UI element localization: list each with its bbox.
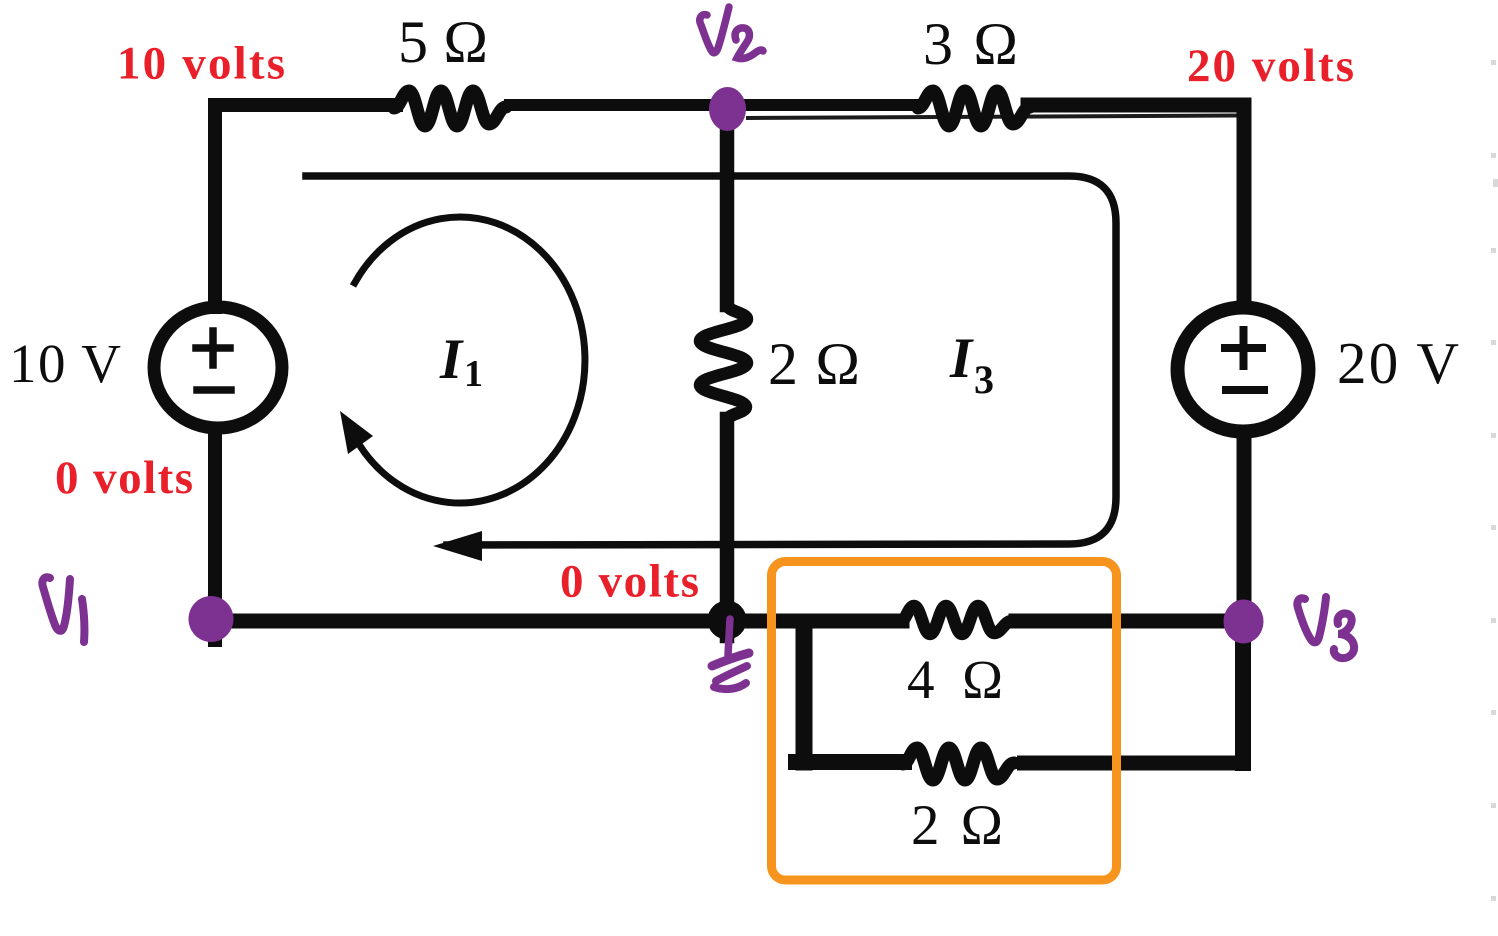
svg-text:3 Ω: 3 Ω xyxy=(923,11,1018,77)
wire left segment below 10V source to node V1 xyxy=(208,431,222,640)
svg-text:I: I xyxy=(439,328,464,391)
plus sign of 10V source xyxy=(196,331,230,365)
minus sign of 20V source xyxy=(1226,386,1264,394)
resistor R 5-ohm (top left) xyxy=(394,91,506,126)
wire top-left segment (10V source top to 5-ohm resistor) xyxy=(215,105,396,307)
arrowhead of I3 loop xyxy=(433,531,482,561)
svg-text:5 Ω: 5 Ω xyxy=(398,9,488,75)
orange highlight box around parallel resistors xyxy=(772,562,1117,881)
svg-text:2 Ω: 2 Ω xyxy=(911,794,1003,857)
resistor R 4-ohm (bottom wire) xyxy=(900,606,1012,634)
minus sign of 10V source xyxy=(197,386,231,394)
wire middle vertical from 2-ohm resistor down to center junction xyxy=(720,419,735,636)
wire parallel-branch bottom right segment to right vertical wire xyxy=(1017,756,1250,771)
junction dot at center bottom node (ground node) xyxy=(708,601,747,640)
resistor R 2-ohm (bottom parallel branch) xyxy=(903,748,1014,780)
node V2 dot (purple) xyxy=(709,87,746,131)
wire right segment below 20V source to node V3 xyxy=(1237,434,1252,621)
wire top segment node V2 to 3-ohm xyxy=(727,99,920,111)
svg-text:2 Ω: 2 Ω xyxy=(768,331,860,397)
scan ghost line under top wire right section xyxy=(748,116,1236,119)
wire middle vertical from node V2 down to 2-ohm middle resistor xyxy=(720,105,735,305)
node label V3 (handwritten purple) xyxy=(1297,597,1354,658)
wire top-right segment and right drop to 20V source xyxy=(1028,105,1244,306)
resistor R 2-ohm (middle vertical) xyxy=(700,305,747,420)
svg-text:3: 3 xyxy=(974,357,994,402)
svg-text:1: 1 xyxy=(464,353,483,395)
node label V1 (handwritten purple) xyxy=(42,577,84,642)
svg-text:20 volts: 20 volts xyxy=(1187,40,1354,92)
wire top-middle segment (5-ohm to node V2) xyxy=(510,99,727,111)
svg-text:10 V: 10 V xyxy=(9,333,121,394)
svg-text:I: I xyxy=(949,327,974,390)
ground symbol (hand-drawn purple) xyxy=(712,619,749,689)
svg-text:20 V: 20 V xyxy=(1337,330,1459,396)
svg-text:0 volts: 0 volts xyxy=(560,556,699,608)
mesh current loop I1 (clockwise ellipse arrow) xyxy=(355,217,585,503)
wire right segment node V3 down to 2-ohm parallel branch xyxy=(1235,621,1251,763)
wire bottom segment node V1 to center junction xyxy=(213,614,727,629)
wire bottom segment 4-ohm resistor to node V3 xyxy=(1016,614,1243,629)
wire parallel-branch left vertical drop (thick) xyxy=(796,623,813,762)
svg-text:0 volts: 0 volts xyxy=(55,452,193,504)
resistor R 3-ohm (top right) xyxy=(918,91,1030,126)
wire bottom segment center junction to 4-ohm resistor xyxy=(727,614,902,629)
wire parallel-branch bottom left segment to 2-ohm resistor xyxy=(796,754,904,770)
svg-text:10 volts: 10 volts xyxy=(117,38,285,90)
voltage source 20V (right) circle xyxy=(1178,308,1309,432)
arrowhead of I1 loop xyxy=(340,411,373,454)
node V3 dot (purple) xyxy=(1224,600,1264,644)
mesh current loop I3 (rounded rectangle path) xyxy=(306,176,1116,545)
node label V2 (handwritten purple) xyxy=(700,7,763,59)
scan artifact dots right edge xyxy=(1491,60,1498,901)
node V1 dot (purple) xyxy=(189,596,234,642)
svg-text:4 Ω: 4 Ω xyxy=(907,649,1003,710)
voltage source 10V (left) circle xyxy=(154,307,282,428)
plus sign of 20V source xyxy=(1225,330,1262,366)
